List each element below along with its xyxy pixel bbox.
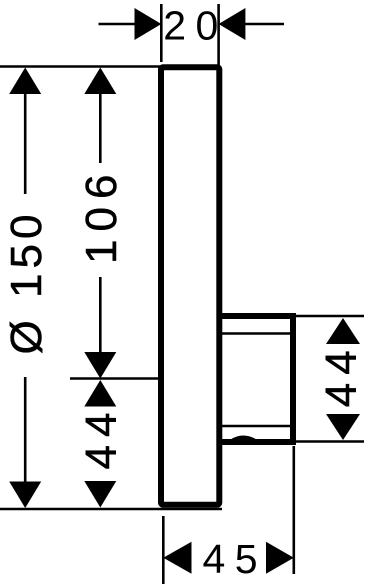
- dim 20: label: [163, 3, 228, 49]
- svg-text:106: 106: [77, 167, 126, 264]
- wall plate (side view): [161, 67, 219, 504]
- svg-text:20: 20: [163, 3, 228, 49]
- valve body box: [219, 316, 293, 442]
- dim 106: lower segment: [99, 277, 102, 353]
- dim 20: left extension line: [160, 4, 163, 62]
- svg-text:Ø 150: Ø 150: [2, 210, 51, 355]
- dim 44 right: bottom extension line: [296, 440, 364, 443]
- dim 20: left arrow: [135, 8, 162, 40]
- top reference line at plate top: [0, 65, 160, 68]
- bottom reference line at plate bottom: [0, 508, 222, 511]
- valve box inner top line: [222, 332, 290, 335]
- dim 20: right arrow: [219, 8, 246, 40]
- dim 20: right extension line: [217, 4, 220, 71]
- valve box inner bottom line: [222, 425, 290, 428]
- dim Ø150: upper segment: [24, 92, 27, 194]
- mid tick line between 106 and 44 dims: [70, 377, 160, 380]
- dim 45: right extension line: [292, 446, 295, 574]
- dim 44 right: top extension line: [296, 315, 364, 318]
- svg-text:45: 45: [202, 536, 267, 582]
- svg-text:44: 44: [317, 342, 366, 407]
- dim 44 left: top arrow: [84, 380, 116, 407]
- dim 44 right: bottom arrow: [326, 414, 360, 440]
- valve box bottom bump: [231, 438, 256, 442]
- dim 106: bottom arrow: [84, 352, 116, 379]
- dim Ø150: lower segment: [24, 377, 27, 484]
- dim 44 right: label: [317, 342, 366, 407]
- dim Ø150: top arrow: [9, 68, 41, 95]
- dim 20: right tail: [244, 23, 284, 26]
- dim 45: right arrow: [266, 542, 294, 574]
- svg-text:44: 44: [77, 405, 126, 470]
- dim 44 right: top arrow: [326, 318, 360, 344]
- dim 106: top arrow: [84, 68, 116, 95]
- dim 45: left arrow: [163, 542, 191, 574]
- dim 20: left tail: [99, 23, 137, 26]
- dim Ø150: label: [2, 210, 51, 355]
- dim 106: label: [77, 167, 126, 264]
- dim 45: label: [202, 536, 267, 582]
- dim 106: upper segment: [99, 92, 102, 163]
- dim 45: left extension line: [162, 516, 165, 584]
- dim 44 left: label: [77, 405, 126, 470]
- dim Ø150: bottom arrow: [9, 482, 41, 509]
- dim 44 left: bottom arrow: [84, 481, 116, 508]
